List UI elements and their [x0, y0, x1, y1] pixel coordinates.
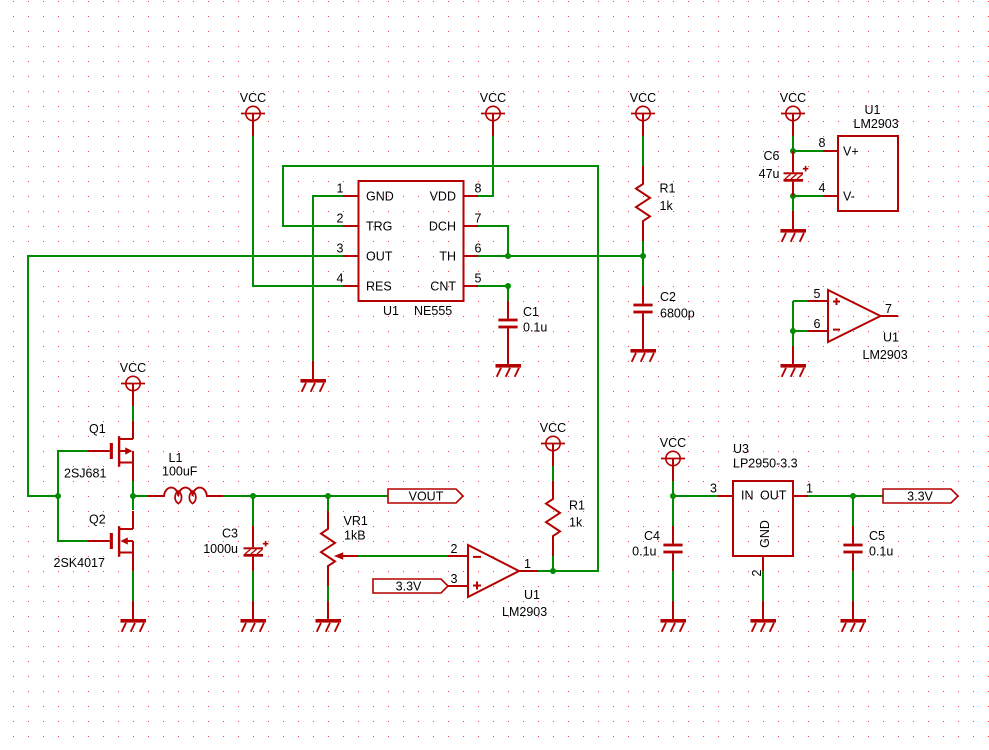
ground symbol at (793,346) [781, 346, 807, 377]
svg-text:R1: R1 [569, 499, 585, 513]
wire R1 bottom to C2 [642, 241, 644, 286]
wire node to C5 [852, 496, 854, 526]
svg-text:TRG: TRG [366, 220, 392, 234]
inductor L1 100uF [148, 451, 223, 504]
ground symbol at (328,601) [316, 601, 342, 632]
svg-text:Q2: Q2 [89, 513, 106, 527]
wire L1 to VOUT flag [223, 495, 388, 497]
VCC power symbol at (793,136) [780, 91, 806, 136]
junction node (58,496) [55, 493, 61, 499]
wire R1 bottom to output node [552, 556, 554, 571]
svg-text:2: 2 [451, 542, 458, 556]
svg-text:C5: C5 [869, 529, 885, 543]
wire CNT (pin5) to C1 [478, 286, 508, 301]
wire comparator +in (pin5) [793, 300, 808, 302]
node 3.3V net flag (to comparator +in) [373, 579, 448, 594]
wire C6 bottom to ground [792, 196, 794, 211]
VCC power symbol at (553,466) [540, 421, 566, 466]
VCC power symbol at (493,136) [480, 91, 506, 136]
svg-text:0.1u: 0.1u [523, 321, 547, 335]
svg-text:VCC: VCC [780, 91, 806, 105]
svg-text:100uF: 100uF [162, 465, 198, 479]
wire comparator -in (pin6) [793, 330, 808, 332]
op-amp U1 NE555 timer IC box [337, 181, 482, 318]
svg-text:47u: 47u [759, 167, 780, 181]
svg-text:1k: 1k [660, 199, 674, 213]
svg-text:2: 2 [750, 569, 764, 576]
svg-text:1: 1 [337, 182, 344, 196]
svg-text:VOUT: VOUT [409, 490, 444, 504]
svg-text:TH: TH [439, 250, 456, 264]
svg-text:C4: C4 [644, 529, 660, 543]
svg-text:VCC: VCC [480, 91, 506, 105]
wire C4 to ground [672, 571, 674, 601]
svg-text:IN: IN [741, 489, 754, 503]
VCC power symbol at (253,136) [240, 91, 266, 136]
wire switch node to L1 [133, 495, 148, 497]
svg-text:2SJ681: 2SJ681 [64, 467, 106, 481]
wire VR1 bottom to ground [327, 586, 329, 601]
wire GND (pin1) net to ground [313, 196, 343, 361]
resistor R1 1k (pull-up at comparator output) [546, 481, 585, 556]
svg-text:U1: U1 [883, 331, 899, 345]
transistor Q2 2SK4017 (N-MOSFET) [54, 511, 134, 571]
svg-text:8: 8 [475, 182, 482, 196]
wire V+ (pin8) to VCC node [793, 150, 823, 152]
wire Q1 source to Q2 drain [132, 480, 134, 510]
svg-text:C3: C3 [222, 527, 238, 541]
wire node to C4 [672, 496, 674, 526]
svg-text:4: 4 [819, 181, 826, 195]
svg-text:GND: GND [758, 520, 772, 548]
junction node (673,496) [670, 493, 676, 499]
svg-text:VCC: VCC [660, 436, 686, 450]
wire Q2 source to ground [132, 571, 134, 601]
junction node (508,256) [505, 253, 511, 259]
svg-text:NE555: NE555 [414, 304, 452, 318]
wire pin5/pin6 to ground [792, 301, 794, 346]
svg-text:VCC: VCC [630, 91, 656, 105]
capacitor C1 0.1u [498, 301, 547, 346]
op-amp U1 LM2903 power pins box [819, 103, 899, 211]
svg-text:1: 1 [524, 557, 531, 571]
wire VCC to R1 top (lower R1) [552, 466, 554, 481]
svg-text:0.1u: 0.1u [632, 545, 656, 559]
junction node (553,571) [550, 568, 556, 574]
svg-text:1000u: 1000u [203, 542, 238, 556]
wire VDD (pin8) to VCC [478, 136, 493, 196]
wire VCC to C6 node [792, 136, 794, 151]
svg-text:8: 8 [819, 136, 826, 150]
VCC power symbol at (643,136) [630, 91, 656, 136]
ground symbol at (673,601) [661, 601, 687, 632]
wire VCC to Q1 drain [132, 406, 134, 421]
svg-text:V-: V- [843, 190, 855, 204]
junction node (793,196) [790, 193, 796, 199]
regulator U3 LP2950-3.3 [710, 442, 813, 576]
junction node (328,496) [325, 493, 331, 499]
svg-text:0.1u: 0.1u [869, 545, 893, 559]
svg-text:3: 3 [337, 242, 344, 256]
wire VCC to U3 input node [672, 481, 674, 496]
wire U3 OUT (pin1) to 3.3V flag [808, 495, 883, 497]
svg-text:GND: GND [366, 190, 394, 204]
svg-text:3.3V: 3.3V [396, 580, 422, 594]
svg-text:1: 1 [806, 482, 813, 496]
svg-text:2: 2 [337, 212, 344, 226]
wire node to C3 [252, 496, 254, 526]
junction node (853,496) [850, 493, 856, 499]
svg-text:3.3V: 3.3V [907, 490, 933, 504]
polarized capacitor C3 1000u [203, 526, 268, 571]
svg-text:VDD: VDD [430, 190, 456, 204]
svg-text:LP2950-3.3: LP2950-3.3 [733, 457, 798, 471]
ground symbol at (133,601) [121, 601, 147, 632]
wire VCC to R1 top [642, 136, 644, 166]
wire node to VR1 top [327, 496, 329, 511]
svg-text:3: 3 [710, 482, 717, 496]
ground symbol at (508,346) [496, 346, 522, 377]
svg-text:VR1: VR1 [344, 514, 368, 528]
wire OUT (pin3) net to MOSFET gates [28, 256, 343, 496]
svg-text:U1: U1 [383, 304, 399, 318]
ground symbol at (253,601) [241, 601, 267, 632]
wire V- (pin4) to ground node [793, 195, 823, 197]
svg-text:5: 5 [475, 272, 482, 286]
svg-text:C2: C2 [660, 290, 676, 304]
svg-text:OUT: OUT [760, 489, 787, 503]
junction node (133,496) [130, 493, 136, 499]
svg-text:3: 3 [451, 572, 458, 586]
resistor R1 1k (top, to 555 TH) [636, 166, 676, 241]
svg-text:R1: R1 [660, 182, 676, 196]
op-amp U1 LM2903 comparator (pins 2,3,1) [448, 542, 547, 619]
svg-text:OUT: OUT [366, 250, 393, 264]
svg-text:CNT: CNT [430, 280, 456, 294]
svg-text:6: 6 [475, 242, 482, 256]
ground symbol at (763,601) [751, 601, 777, 632]
svg-text:5: 5 [814, 287, 821, 301]
wire C3 to ground [252, 571, 254, 601]
ground symbol at (643,331) [631, 331, 657, 362]
svg-text:VCC: VCC [120, 361, 146, 375]
capacitor C5 0.1u [843, 526, 893, 571]
wire VR1 wiper to op-amp pin2 [358, 555, 448, 557]
wire DCH (pin7) to TH net [478, 226, 508, 256]
svg-text:1kB: 1kB [344, 529, 366, 543]
junction node (793,331) [790, 328, 796, 334]
junction node (643,256) [640, 253, 646, 259]
transistor Q1 2SJ681 (P-MOSFET) [64, 421, 133, 481]
ground symbol at (793,211) [781, 211, 807, 242]
svg-text:7: 7 [475, 212, 482, 226]
ground symbol at (313,361) [301, 361, 327, 392]
node VOUT net flag [388, 489, 463, 504]
svg-text:C1: C1 [523, 305, 539, 319]
svg-text:6: 6 [814, 317, 821, 331]
svg-text:U1: U1 [865, 103, 881, 117]
svg-text:C6: C6 [764, 149, 780, 163]
wire node to U3 IN (pin3) [673, 495, 718, 497]
svg-text:V+: V+ [843, 145, 859, 159]
svg-text:4: 4 [337, 272, 344, 286]
svg-text:L1: L1 [169, 451, 183, 465]
svg-text:LM2903: LM2903 [502, 605, 547, 619]
polarized capacitor C6 47u [759, 149, 809, 196]
junction node (793,151) [790, 148, 796, 154]
junction node (508,286) [505, 283, 511, 289]
potentiometer VR1 1kB [321, 511, 368, 586]
svg-text:RES: RES [366, 280, 392, 294]
wire TRG (pin2) net to comparator output [283, 166, 598, 571]
ground symbol at (853,601) [841, 601, 867, 632]
wire U3 GND (pin2) to ground [762, 571, 764, 601]
wire gates node to Q1 gate [58, 451, 88, 496]
svg-text:LM2903: LM2903 [863, 348, 908, 362]
wire VCC to RES (pin4) net [253, 136, 343, 286]
svg-text:VCC: VCC [540, 421, 566, 435]
svg-text:LM2903: LM2903 [854, 117, 899, 131]
junction node (253,496) [250, 493, 256, 499]
svg-text:U1: U1 [524, 588, 540, 602]
node 3.3V net output flag [883, 489, 958, 504]
VCC power symbol at (133,406) [120, 361, 146, 406]
wire gates node to Q2 gate [58, 496, 88, 541]
svg-text:VCC: VCC [240, 91, 266, 105]
svg-text:DCH: DCH [429, 220, 456, 234]
VCC power symbol at (673,481) [660, 436, 686, 481]
capacitor C4 0.1u [632, 526, 682, 571]
op-amp U1 LM2903 comparator (pins 5,6,7) [808, 287, 908, 362]
svg-text:6800p: 6800p [660, 307, 695, 321]
wire TH (pin6) to R1/C2 node [478, 255, 643, 257]
svg-text:2SK4017: 2SK4017 [54, 556, 105, 570]
capacitor C2 6800p [633, 286, 694, 331]
svg-text:Q1: Q1 [89, 422, 106, 436]
wire C5 to ground [852, 571, 854, 601]
svg-text:U3: U3 [733, 442, 749, 456]
svg-text:1k: 1k [569, 516, 583, 530]
svg-text:7: 7 [885, 302, 892, 316]
